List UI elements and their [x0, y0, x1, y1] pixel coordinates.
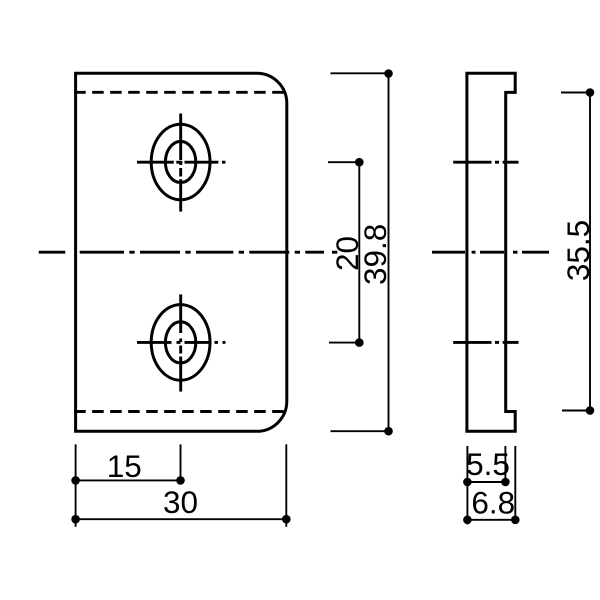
svg-text:5.5: 5.5 — [466, 446, 510, 482]
svg-text:39.8: 39.8 — [357, 224, 393, 285]
svg-text:6.8: 6.8 — [471, 485, 515, 521]
svg-text:30: 30 — [163, 484, 198, 520]
svg-text:15: 15 — [107, 448, 142, 484]
svg-text:35.5: 35.5 — [560, 220, 596, 281]
